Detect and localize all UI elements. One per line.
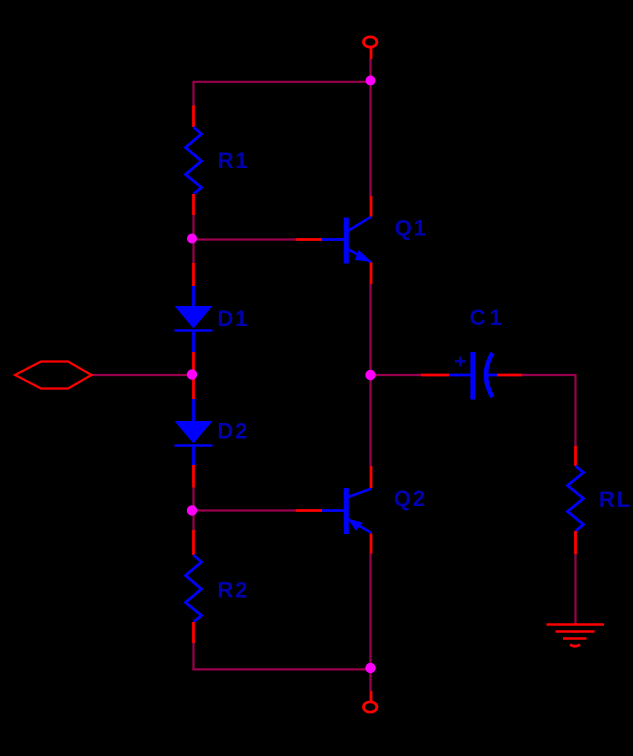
junction bottom rail node	[365, 663, 375, 673]
wire node B2 to Q2 base	[194, 509, 297, 511]
svg-text:Q2: Q2	[394, 486, 427, 511]
wire C1 to RL corner	[522, 375, 576, 446]
resistor RL	[568, 446, 584, 554]
wire bottom junction to bottom terminal	[369, 671, 371, 692]
wire Q2 emitter to bottom junction	[369, 554, 371, 671]
junction top rail node	[366, 76, 376, 86]
wire top junction to Q1 collector	[369, 81, 371, 197]
label Q2	[394, 486, 427, 511]
diode D2	[175, 378, 213, 488]
wire top rail corner down to R1	[192, 82, 194, 106]
svg-text:Q1: Q1	[395, 215, 428, 240]
ground	[547, 625, 605, 647]
junction node B1	[187, 234, 197, 244]
wire output node to C1	[371, 374, 422, 376]
diode D1	[175, 263, 213, 371]
wire Q1 emitter to output node	[369, 284, 371, 375]
transistor Q1	[296, 196, 372, 284]
wire node B1 to Q1 base	[194, 238, 297, 240]
input port hexagon	[15, 362, 92, 389]
label R1	[218, 148, 250, 173]
label D2	[217, 419, 249, 444]
wire output node down to Q2 collector	[369, 375, 371, 466]
wire RL to ground	[574, 554, 576, 624]
svg-text:RL: RL	[599, 487, 632, 512]
label Q1	[395, 215, 428, 240]
wire R2 to bottom rail	[192, 643, 194, 671]
resistor R1	[186, 106, 202, 216]
label D1	[217, 306, 249, 331]
transistor Q2	[296, 466, 372, 554]
wire input port to node IN	[91, 374, 192, 376]
svg-text:R2: R2	[217, 578, 249, 603]
junction node OUT	[365, 370, 375, 380]
junction node B2	[187, 505, 197, 515]
wire R1 to node B1	[192, 215, 194, 263]
wire D2 to node B2	[192, 488, 194, 531]
label R2	[217, 578, 249, 603]
svg-text:D2: D2	[217, 419, 249, 444]
svg-text:R1: R1	[218, 148, 250, 173]
junction node IN	[187, 369, 197, 379]
wire bottom rail	[192, 668, 370, 670]
bottom supply terminal	[364, 691, 377, 712]
label C1	[470, 305, 506, 330]
capacitor C1	[421, 352, 522, 400]
wire top terminal to top rail junction	[369, 59, 371, 83]
top supply terminal	[364, 37, 377, 59]
resistor R2	[186, 530, 202, 643]
svg-text:C1: C1	[470, 305, 506, 330]
label RL	[599, 487, 632, 512]
wire top rail	[192, 81, 370, 83]
svg-text:D1: D1	[217, 306, 249, 331]
